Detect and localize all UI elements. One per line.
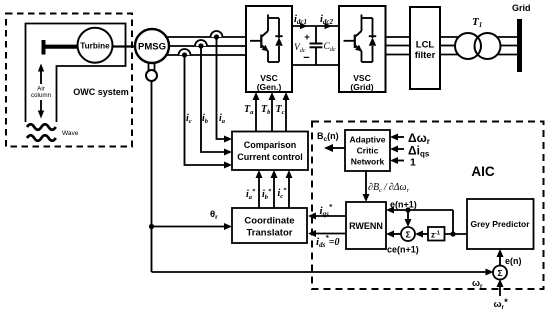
turbine <box>78 28 113 63</box>
wire phase b VSC Grid to LCL <box>386 45 411 47</box>
wire e(n+1) feedback to RWENN <box>386 207 453 214</box>
svg-text:ia*: ia* <box>246 188 256 201</box>
label ia <box>219 113 226 125</box>
svg-text:idc2: idc2 <box>320 14 334 26</box>
IGBT Q1 inside VSC Gen <box>250 15 269 63</box>
label e(n+1) <box>390 200 417 210</box>
wire ic measurement to Comparison box <box>185 55 233 169</box>
svg-text:ib: ib <box>202 113 209 125</box>
svg-text:Σ: Σ <box>405 230 410 240</box>
svg-text:T1: T1 <box>472 16 482 29</box>
RWENN box <box>346 202 386 249</box>
svg-text:Turbine: Turbine <box>80 42 110 51</box>
wire ids*=0 to Coordinate Translator <box>308 230 346 237</box>
wave symbol <box>27 124 79 141</box>
svg-text:Vdc: Vdc <box>294 43 306 54</box>
svg-text:(Gen.): (Gen.) <box>257 82 282 92</box>
svg-text:LCL: LCL <box>416 40 435 51</box>
VSC (Grid) converter box U2 <box>339 6 386 92</box>
label ic <box>186 113 192 125</box>
label dBc/dDomega-r <box>368 182 410 194</box>
Grey Predictor box <box>467 199 534 249</box>
svg-text:Cdc: Cdc <box>324 42 336 53</box>
PMSG G1 <box>135 29 169 63</box>
svg-text:ic: ic <box>186 113 192 125</box>
svg-text:Coordinate: Coordinate <box>244 216 294 227</box>
wire dBc/dDomega to RWENN <box>363 171 370 202</box>
current sensor on phase a <box>211 31 223 40</box>
label Ta <box>244 104 254 116</box>
svg-text:Tc: Tc <box>276 104 285 116</box>
svg-text:Comparison: Comparison <box>244 140 297 150</box>
svg-text:Tb: Tb <box>261 104 271 116</box>
wire omega-r* reference input <box>497 279 504 296</box>
svg-text:column: column <box>31 92 52 99</box>
wire phase b (middle) PMSG to VSC Gen <box>168 45 246 47</box>
delay block z-1 <box>428 227 445 241</box>
svg-text:Ta: Ta <box>244 104 254 116</box>
svg-text:filter: filter <box>415 50 436 61</box>
wire omega-r to summer <box>152 269 494 276</box>
label ce(n+1) <box>387 245 419 255</box>
capacitor Cdc <box>303 26 322 65</box>
svg-text:ia: ia <box>219 113 226 125</box>
wire LCL to transformer <box>440 37 459 55</box>
svg-text:Bc(n): Bc(n) <box>317 131 339 143</box>
svg-text:+: + <box>304 32 310 43</box>
wire shaft turbine to PMSG <box>111 45 136 47</box>
IGBT Q2 inside VSC Grid <box>344 15 363 63</box>
wire DC link bottom rail <box>292 64 339 66</box>
svg-text:Translator: Translator <box>247 228 293 239</box>
wire ia* reference <box>256 170 263 208</box>
wire summer to RWENN ce(n+1) <box>386 231 401 238</box>
label delta-iqs <box>408 144 430 159</box>
wire junction down to summer <box>405 210 412 227</box>
wire Ta gate signal <box>253 92 260 131</box>
svg-text:ib*: ib* <box>262 188 272 201</box>
svg-text:Current control: Current control <box>237 152 303 162</box>
wire Tb gate signal <box>269 92 276 131</box>
svg-text:Grid: Grid <box>512 3 531 13</box>
label ids*=0 <box>316 234 340 249</box>
wire ia measurement to Comparison box <box>217 37 233 143</box>
svg-text:1: 1 <box>410 157 416 169</box>
wire iqs* to Coordinate Translator <box>308 213 346 220</box>
svg-text:Wave: Wave <box>62 130 79 137</box>
Adaptive Critic Network box <box>345 130 390 171</box>
Coordinate Translator box <box>232 208 307 243</box>
grid bus bar <box>512 3 531 72</box>
Comparison Current control box <box>232 132 308 171</box>
AIC dashed enclosure <box>312 122 544 290</box>
wire delta-iqs input <box>390 146 404 153</box>
wire z-1 to summer <box>415 231 428 238</box>
wire phase a VSC Grid to LCL <box>386 36 411 38</box>
label theta-r <box>210 209 218 221</box>
OWC air-column duct structure <box>26 24 126 123</box>
label Vdc <box>294 43 306 54</box>
LCL filter box <box>410 7 440 89</box>
svg-text:PMSG: PMSG <box>138 42 166 53</box>
svg-text:Network: Network <box>351 157 385 167</box>
svg-text:ωr*: ωr* <box>494 297 509 311</box>
summer S1 <box>401 227 415 241</box>
air column arrows and label <box>31 64 52 119</box>
label Cdc <box>324 42 336 53</box>
label omega-r <box>472 278 483 290</box>
svg-text:θr: θr <box>210 209 218 221</box>
label ia* <box>246 188 256 201</box>
svg-text:idc1: idc1 <box>294 14 307 26</box>
svg-text:e(n): e(n) <box>505 256 522 266</box>
label ib* <box>262 188 272 201</box>
label iqs* <box>320 203 333 218</box>
wire phase c (bottom) PMSG to VSC Gen <box>165 54 246 56</box>
wire ib* reference <box>271 170 278 208</box>
current sensor on phase b <box>195 40 207 49</box>
label idc2 <box>320 14 334 26</box>
svg-text:∂Bc / ∂Δωr: ∂Bc / ∂Δωr <box>368 182 410 194</box>
wire phase c VSC Grid to LCL <box>386 54 411 56</box>
svg-text:Adaptive: Adaptive <box>350 135 386 145</box>
svg-text:Σ: Σ <box>497 268 502 278</box>
label omega-r* <box>494 297 509 311</box>
wire Bc(n) output to Comparison box <box>324 144 345 152</box>
wire Tc gate signal <box>283 92 290 131</box>
label Tc <box>276 104 285 116</box>
svg-text:OWC system: OWC system <box>73 87 129 97</box>
label Bc(n) <box>317 131 339 143</box>
wire delta-omega-r input <box>390 134 404 141</box>
freewheel diode D2 <box>362 18 377 62</box>
wire transformer to grid bus <box>497 37 517 55</box>
wire e(n) from summer to Grey Predictor <box>497 249 504 266</box>
svg-text:RWENN: RWENN <box>349 221 383 231</box>
position/speed sensor <box>146 70 157 81</box>
transformer T1 <box>455 16 501 59</box>
freewheel diode D1 <box>268 18 283 62</box>
svg-text:Grey Predictor: Grey Predictor <box>470 219 530 229</box>
svg-text:(Grid): (Grid) <box>350 82 373 92</box>
svg-text:e(n+1): e(n+1) <box>390 200 417 210</box>
label Tb <box>261 104 271 116</box>
current sensor on phase c <box>179 49 191 58</box>
label ib <box>202 113 209 125</box>
label delta-omega-r <box>408 131 430 146</box>
wire ib measurement to Comparison box <box>201 46 232 156</box>
wire bias input 1 <box>390 157 404 164</box>
label 1 <box>410 157 416 169</box>
speed sensor shaft stubs <box>149 62 155 71</box>
wire DC link top rail <box>292 23 339 30</box>
label ic* <box>278 187 288 200</box>
svg-text:AIC: AIC <box>471 164 495 179</box>
label idc1 <box>294 14 307 26</box>
turbine shaft (thick) with end bar <box>42 40 79 55</box>
VSC (Gen.) converter box U1 <box>246 6 292 92</box>
wire Grey Predictor to delay and up to e(n+1) <box>445 210 468 237</box>
wire ic* reference <box>286 170 293 208</box>
svg-text:Critic: Critic <box>357 146 379 156</box>
label e(n) <box>505 256 522 266</box>
svg-text:ce(n+1): ce(n+1) <box>387 245 419 255</box>
summer S2 <box>493 266 507 280</box>
svg-text:ids*=0: ids*=0 <box>316 234 340 249</box>
wire theta-r from sensor to Coordinate Translator <box>149 81 232 272</box>
svg-text:ic*: ic* <box>278 187 288 200</box>
OWC system dashed enclosure <box>6 14 132 147</box>
wire phase a (top) PMSG to VSC Gen <box>165 36 246 38</box>
